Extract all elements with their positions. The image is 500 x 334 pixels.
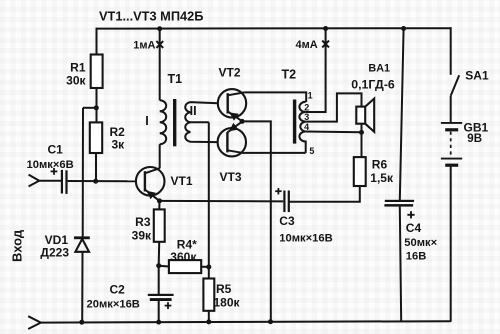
wire R3 to node B xyxy=(158,242,161,266)
wire top supply rail xyxy=(97,27,451,29)
label GB1 9В xyxy=(464,121,489,145)
C2 polarity plus xyxy=(165,302,172,309)
svg-text:R1: R1 xyxy=(70,61,86,75)
wire R6 to C3 xyxy=(289,186,360,202)
junction rail/T2 feed xyxy=(323,26,328,31)
pin label 3 xyxy=(304,112,309,122)
wire VD1 branch upper xyxy=(82,108,84,238)
label R5 180к xyxy=(214,282,241,309)
wire input to C1 xyxy=(39,180,61,182)
pin label 2 xyxy=(304,103,309,113)
svg-text:C1: C1 xyxy=(48,143,64,157)
input terminal arrow (top) xyxy=(29,175,40,187)
wire R2 to base node xyxy=(95,153,97,181)
resistor R1 xyxy=(91,55,103,89)
capacitor C2 xyxy=(148,294,174,301)
node VT1 emitter junction xyxy=(157,198,162,203)
capacitor C1 xyxy=(61,170,68,194)
label I xyxy=(145,114,148,128)
svg-text:0,1ГД-6: 0,1ГД-6 xyxy=(351,77,395,91)
transformer T2 winding xyxy=(299,102,305,153)
label R3 39к xyxy=(132,215,152,243)
svg-text:16В: 16В xyxy=(406,251,427,263)
resistor R2 xyxy=(90,122,102,153)
svg-text:VT3: VT3 xyxy=(220,170,242,184)
battery dashed link xyxy=(450,132,452,159)
transformer T1 primary winding I xyxy=(160,100,167,144)
wire VT1 emitter to R3 xyxy=(158,201,160,210)
current test point X 4мА xyxy=(322,41,329,48)
svg-text:VT2: VT2 xyxy=(219,66,241,80)
diode VD1 xyxy=(74,238,90,252)
svg-text:C2: C2 xyxy=(110,283,126,297)
node R4/R5/centre-tap junction xyxy=(206,264,211,269)
wire R4 to centre-tap line xyxy=(201,266,209,268)
node VT2/VT3 emitter junction xyxy=(240,119,245,124)
wire T2 pin 3 to speaker top xyxy=(306,93,362,121)
resistor R3 xyxy=(154,209,165,241)
wire R5 to rail xyxy=(208,311,210,322)
svg-text:C4: C4 xyxy=(406,221,422,235)
wire VT3 collector to T2 pin 5 xyxy=(245,152,306,154)
speaker BA1 xyxy=(356,99,374,132)
wire rail to T2 pin 2 with 4mA point xyxy=(306,28,326,112)
svg-text:4мА: 4мА xyxy=(296,39,318,51)
wire rail corner down to R1 xyxy=(96,28,98,55)
node speaker/R6/pin4 junction xyxy=(359,130,364,135)
transistor VT2 xyxy=(218,89,246,121)
svg-text:T1: T1 xyxy=(168,72,183,86)
wire node A stub left xyxy=(83,107,96,109)
wire battery to bottom rail xyxy=(450,167,452,322)
svg-text:50мк×: 50мк× xyxy=(404,237,437,249)
wire rail to T1 primary with 1mA point xyxy=(159,29,161,101)
svg-text:T2: T2 xyxy=(282,68,297,82)
wire VT1 collector up xyxy=(159,144,161,168)
svg-text:1мА: 1мА xyxy=(133,40,155,52)
label 4мА xyxy=(296,39,318,51)
wire bottom common rail xyxy=(41,321,451,322)
resistor R4 xyxy=(169,260,201,273)
svg-text:3к: 3к xyxy=(112,138,126,152)
label VT2 xyxy=(219,66,241,80)
label VT3 xyxy=(220,170,242,184)
wire node B to C2 xyxy=(158,266,160,296)
svg-text:VT1: VT1 xyxy=(171,174,193,188)
C4 polarity plus xyxy=(407,211,414,218)
capacitor C3 xyxy=(283,191,290,213)
junction R2/base wire xyxy=(93,179,98,184)
transformer T2 core xyxy=(293,100,296,144)
junction R5/rail xyxy=(206,319,211,324)
svg-text:30к: 30к xyxy=(66,74,86,88)
transistor VT1 xyxy=(136,167,165,201)
resistor R6 xyxy=(354,157,366,186)
junction rail/C4 line xyxy=(401,26,406,31)
resistor R5 xyxy=(203,279,214,311)
wire C4 to rail xyxy=(400,207,401,322)
wire T1 centre tap down to R4/R5 xyxy=(208,122,210,278)
transformer T1 core xyxy=(173,99,176,146)
wire VD1 to rail xyxy=(81,252,83,322)
svg-text:BA1: BA1 xyxy=(368,63,390,75)
label R1 30к xyxy=(66,61,86,88)
wire rail corner to SA1 xyxy=(450,27,452,75)
junction emitter line/rail xyxy=(268,319,273,324)
label 1мА xyxy=(133,40,155,52)
pin label 5 xyxy=(309,146,314,156)
current test point X 1мА xyxy=(156,41,163,48)
label R4* 360к xyxy=(170,237,197,264)
wire C1 to VT1 base xyxy=(68,180,137,182)
label R6 1,5к xyxy=(370,158,394,186)
label R2 3к xyxy=(110,125,126,152)
svg-text:20мк×16В: 20мк×16В xyxy=(87,298,140,310)
wire T2 pin 4 to speaker bottom xyxy=(306,131,362,134)
svg-text:10мк×16В: 10мк×16В xyxy=(279,233,332,245)
wire VT1 emitter to C3 xyxy=(160,200,284,203)
node A junction R1/R2/VD1 xyxy=(94,105,99,110)
wire R1 to node A xyxy=(96,88,98,122)
label SA1 xyxy=(465,69,489,83)
pin label 1 xyxy=(308,91,313,101)
svg-text:C3: C3 xyxy=(279,214,295,228)
svg-text:4: 4 xyxy=(304,122,309,132)
svg-text:SA1: SA1 xyxy=(465,69,489,83)
junction rail/T1 xyxy=(157,26,162,31)
wire rail down to C4 xyxy=(400,28,404,201)
title label VT1...VT3 МП42Б xyxy=(99,8,203,23)
transformer T1 secondary winding II xyxy=(185,102,218,142)
svg-text:R5: R5 xyxy=(216,282,232,296)
svg-text:I: I xyxy=(145,114,148,128)
label T1 xyxy=(168,72,183,86)
wire node B to R4 xyxy=(159,265,169,268)
svg-text:39к: 39к xyxy=(132,229,152,243)
node B junction R3/R4/C2 xyxy=(156,263,161,268)
battery GB1 cell 1 xyxy=(441,123,462,130)
capacitor C4 xyxy=(384,200,414,207)
input terminal arrow (bottom) xyxy=(28,316,41,329)
label VT1 xyxy=(171,174,193,188)
label Вход xyxy=(10,229,25,262)
label T2 xyxy=(282,68,297,82)
wire emitters junction to bottom rail xyxy=(242,121,271,321)
label C1 10мк×6В xyxy=(27,143,74,172)
junction VD1/rail xyxy=(79,320,84,325)
battery GB1 cell 2 xyxy=(441,159,462,166)
wire speaker bottom junction xyxy=(361,124,363,157)
svg-text:II: II xyxy=(190,104,197,118)
label VD1 Д223 xyxy=(40,233,69,259)
switch SA1 xyxy=(451,75,460,96)
svg-text:R6: R6 xyxy=(372,158,388,172)
svg-text:180к: 180к xyxy=(214,295,241,309)
svg-text:10мк×6В: 10мк×6В xyxy=(27,159,74,171)
label II xyxy=(190,104,197,118)
svg-text:9В: 9В xyxy=(467,133,482,145)
svg-text:Вход: Вход xyxy=(10,229,25,262)
svg-text:1: 1 xyxy=(308,91,313,101)
svg-text:5: 5 xyxy=(309,146,314,156)
C3 polarity plus xyxy=(275,188,281,194)
svg-text:360к: 360к xyxy=(170,250,197,264)
junction C2/rail xyxy=(156,320,161,325)
pin label 4 xyxy=(304,122,309,132)
wire SA1 to battery xyxy=(450,96,452,122)
label C2 20мк×16В xyxy=(87,283,140,311)
label C3 10мк×16В xyxy=(279,214,332,245)
C1 polarity plus xyxy=(51,168,58,175)
transistor VT3 xyxy=(218,122,246,157)
svg-text:1,5к: 1,5к xyxy=(370,171,394,185)
svg-text:Д223: Д223 xyxy=(40,245,69,259)
label BA1 0,1ГД-6 xyxy=(351,63,395,92)
wire VT2 collector to T2 pin 1 xyxy=(244,92,306,102)
label C4 50мк× 16В xyxy=(404,221,437,263)
svg-text:VT1...VT3 МП42Б: VT1...VT3 МП42Б xyxy=(99,8,203,23)
wire C2 to rail xyxy=(158,301,160,322)
svg-text:R3: R3 xyxy=(135,215,151,229)
